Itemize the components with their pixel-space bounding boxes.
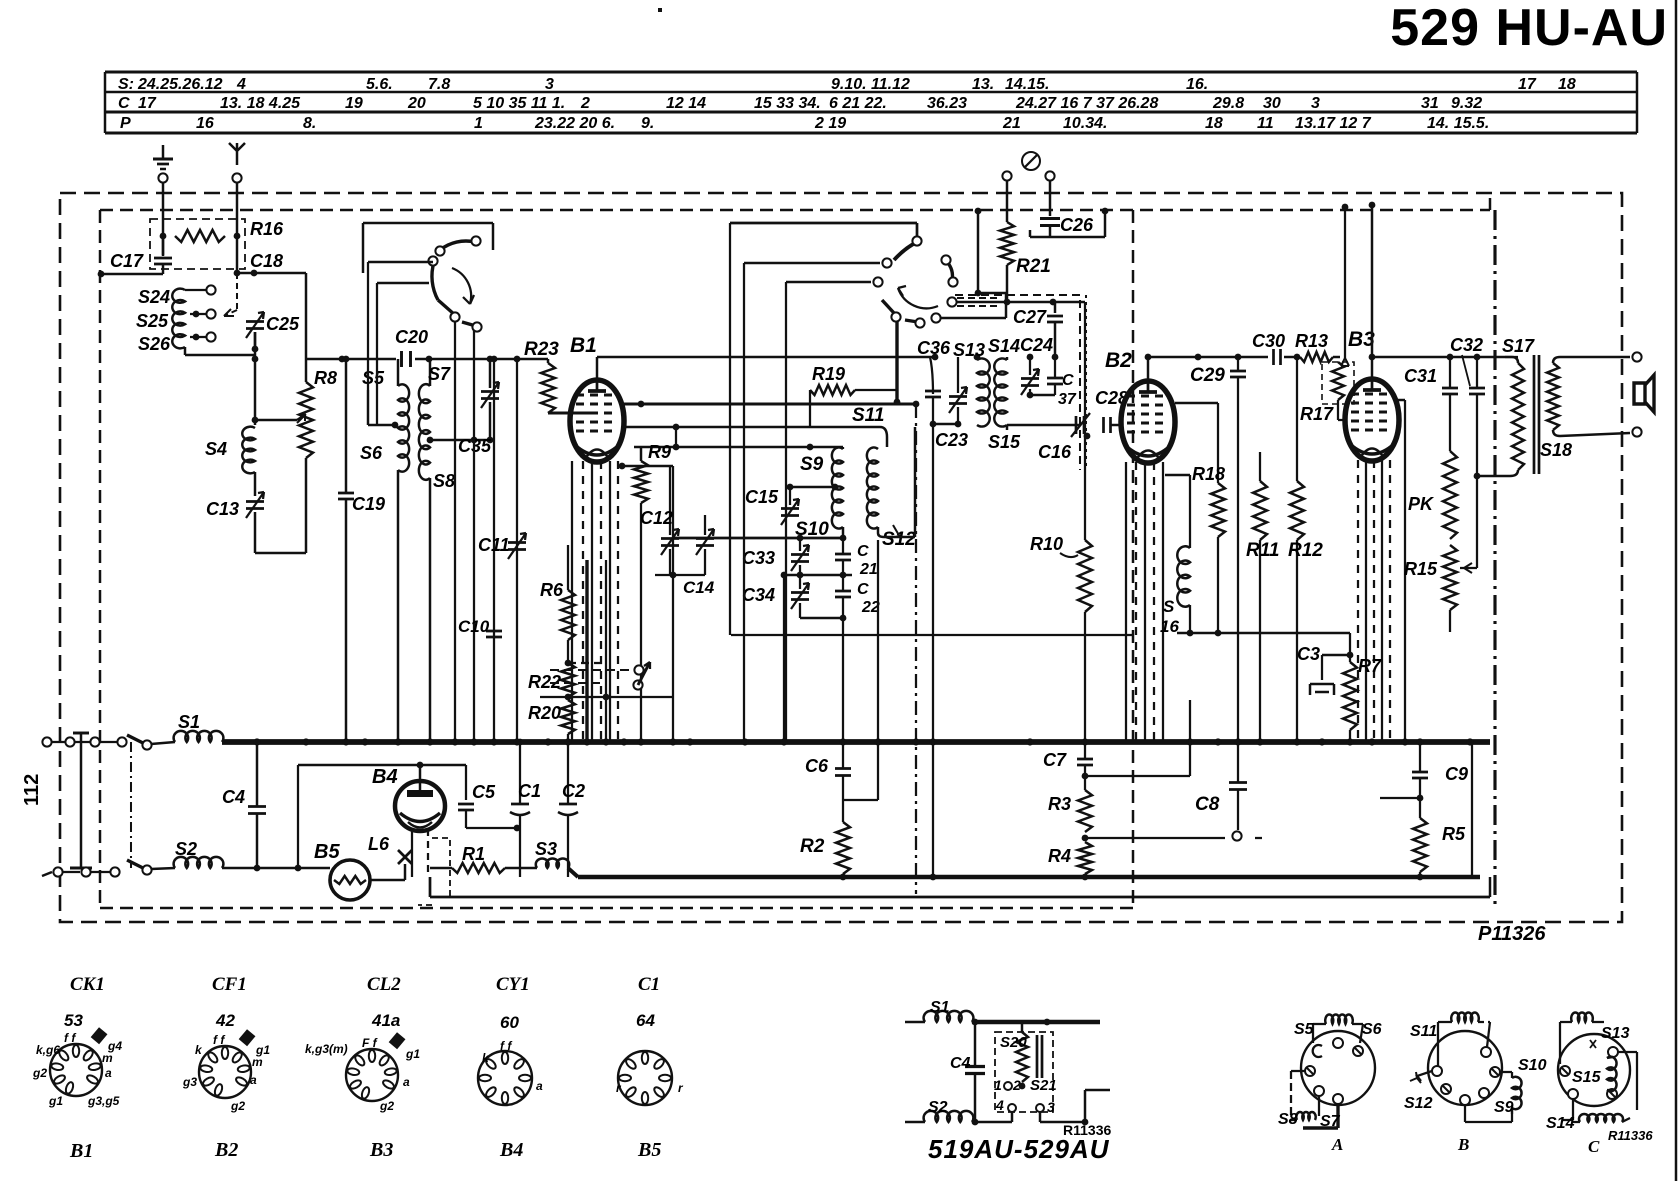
svg-text:R16: R16 — [250, 219, 284, 239]
label CY1 — [496, 974, 530, 995]
label L6 — [368, 834, 390, 854]
inset winding S21 — [1037, 1035, 1042, 1078]
svg-text:B5: B5 — [314, 841, 340, 863]
svg-text:14. 15.5.: 14. 15.5. — [1427, 115, 1489, 132]
svg-text:112: 112 — [21, 774, 43, 806]
label B5 socket — [637, 1139, 661, 1161]
label C31 — [1404, 366, 1437, 386]
svg-text:S13: S13 — [953, 340, 985, 360]
svg-text:C23: C23 — [935, 430, 968, 450]
svg-text:CY1: CY1 — [496, 974, 530, 995]
label B3 socket — [369, 1139, 393, 1161]
svg-text:S9: S9 — [1494, 1099, 1514, 1116]
transformer S17 — [1505, 357, 1524, 470]
svg-text:A: A — [1331, 1135, 1343, 1154]
svg-text:R17: R17 — [1300, 404, 1334, 424]
svg-text:R3: R3 — [1048, 794, 1071, 814]
svg-text:29.8: 29.8 — [1212, 95, 1244, 112]
wire x587 column — [585, 560, 588, 742]
svg-text:C5: C5 — [472, 782, 496, 802]
svg-text:C20: C20 — [395, 327, 428, 347]
svg-text:11: 11 — [1257, 115, 1274, 132]
wire B4 leads down — [412, 829, 428, 877]
capacitor C30 — [1274, 349, 1301, 365]
label R10 — [1030, 534, 1078, 557]
svg-text:S1: S1 — [178, 712, 200, 732]
inset coil S2 — [905, 1111, 973, 1122]
wire B3 grid right — [1395, 400, 1405, 742]
wire C12 C14 bottoms — [655, 572, 705, 579]
svg-text:B: B — [1457, 1135, 1469, 1154]
label S26 — [138, 334, 171, 354]
svg-text:529 HU-AU: 529 HU-AU — [1390, 0, 1668, 57]
coil S3 — [536, 858, 569, 868]
svg-text:S:: S: — [118, 76, 134, 93]
inset taps — [994, 1077, 1025, 1093]
label S2 — [175, 839, 197, 859]
wire x606 column — [605, 560, 607, 742]
inset label S1 — [930, 999, 950, 1016]
label R16 — [250, 219, 284, 239]
svg-text:S13: S13 — [1601, 1025, 1630, 1042]
wire y560 links — [567, 545, 569, 560]
wire C7 right — [1085, 700, 1190, 776]
label 64 — [636, 1011, 655, 1030]
HT bus — [222, 738, 1490, 745]
svg-text:S4: S4 — [205, 439, 227, 459]
svg-text:P: P — [120, 115, 131, 132]
inset thick wire top — [972, 1019, 1100, 1026]
wire C21 column to bus — [842, 618, 844, 742]
label C20 — [395, 327, 428, 347]
label R20 — [528, 703, 561, 723]
svg-text:S24: S24 — [138, 287, 170, 307]
label C23 — [935, 430, 968, 450]
wire y618 — [800, 615, 846, 622]
capacitor C24 variable — [1021, 354, 1039, 399]
inset resistor S20 — [1016, 1022, 1028, 1082]
svg-text:10.34.: 10.34. — [1063, 115, 1107, 132]
inset label R11336 — [1063, 1122, 1111, 1138]
switch S top — [127, 735, 175, 750]
label C29 — [1190, 365, 1225, 386]
coil S5 S6 — [398, 359, 409, 742]
svg-text:5.6.: 5.6. — [366, 76, 393, 93]
socket CK1 — [32, 1027, 122, 1108]
socket CF1 — [182, 1029, 270, 1113]
resistor R5 — [1413, 798, 1427, 877]
svg-text:R5: R5 — [1442, 824, 1466, 844]
inset label S21 — [1030, 1077, 1057, 1094]
svg-text:15 33 34.: 15 33 34. — [754, 95, 821, 112]
wire C13 to R8 bottom — [255, 552, 306, 554]
label S9 — [800, 454, 824, 475]
dashed box IF — [955, 295, 1086, 470]
svg-text:S11: S11 — [1410, 1023, 1437, 1040]
label C12 — [640, 508, 673, 528]
label S4 — [205, 439, 227, 459]
inner dashed border left — [99, 210, 101, 908]
svg-text:S17: S17 — [1502, 336, 1535, 356]
svg-text:C14: C14 — [683, 578, 715, 597]
svg-text:B4: B4 — [499, 1139, 523, 1161]
svg-text:C: C — [1588, 1137, 1600, 1156]
svg-text:13.17 12 7: 13.17 12 7 — [1295, 115, 1372, 132]
svg-text:C6: C6 — [805, 756, 829, 776]
svg-text:R4: R4 — [1048, 846, 1071, 866]
svg-text:37: 37 — [1058, 391, 1077, 408]
wire S17 bottom — [1474, 470, 1518, 479]
svg-text:k: k — [482, 1051, 490, 1065]
svg-text:R12: R12 — [1288, 540, 1323, 561]
dashes beside switch — [957, 298, 1000, 306]
coil S1 — [174, 731, 224, 742]
inset label C4 — [950, 1055, 971, 1072]
svg-text:5 10 35 11 1.: 5 10 35 11 1. — [473, 95, 565, 112]
svg-text:a: a — [536, 1079, 543, 1093]
svg-text:C17: C17 — [110, 251, 144, 271]
resistor R12 — [1290, 481, 1304, 742]
svg-text:a: a — [105, 1066, 112, 1080]
svg-text:PK: PK — [1408, 494, 1435, 514]
wire switch top — [363, 223, 493, 273]
svg-text:S5: S5 — [1294, 1021, 1315, 1038]
svg-text:S1: S1 — [930, 999, 950, 1016]
svg-text:S6: S6 — [1362, 1021, 1382, 1038]
svg-text:B5: B5 — [637, 1139, 661, 1161]
svg-text:C13: C13 — [206, 499, 239, 519]
connector A — [1291, 1014, 1363, 1128]
coil S2 — [174, 857, 224, 868]
capacitor C21 — [835, 538, 851, 575]
svg-text:8.: 8. — [303, 115, 316, 132]
wire switch right mid — [744, 263, 880, 742]
inset label S2 — [928, 1099, 948, 1116]
label C6 — [805, 756, 829, 776]
inset label S20 — [1000, 1034, 1027, 1051]
svg-text:C: C — [118, 95, 130, 112]
wire S18 bottom — [1553, 427, 1642, 436]
svg-text:m: m — [102, 1051, 113, 1065]
wire S2 to B5 — [222, 868, 334, 880]
svg-text:P11326: P11326 — [1478, 923, 1546, 945]
inset wires — [972, 1090, 1110, 1125]
resistor R7 — [1343, 633, 1357, 742]
dashed box B4 leads — [418, 838, 450, 905]
socket CL2 — [305, 1032, 420, 1113]
wire y404 — [624, 401, 919, 408]
wire y466 to column — [619, 463, 673, 742]
wire C9 left — [1380, 742, 1420, 798]
wire column x474 — [473, 326, 475, 742]
svg-text:C8: C8 — [1195, 794, 1220, 815]
wire R12 top — [1296, 357, 1298, 481]
svg-text:C31: C31 — [1404, 366, 1437, 386]
wire R17 wiper — [1341, 204, 1349, 366]
svg-text:C7: C7 — [1043, 750, 1067, 770]
speaker — [1634, 375, 1654, 412]
capacitor C7 — [1077, 742, 1093, 790]
label S11 — [852, 405, 884, 426]
label S14 — [988, 336, 1020, 356]
svg-text:S20: S20 — [1000, 1034, 1027, 1051]
wire y697 link — [540, 694, 673, 701]
svg-text:S14: S14 — [988, 336, 1020, 356]
label R19 — [812, 364, 845, 384]
svg-text:S12: S12 — [1404, 1095, 1433, 1112]
wire y765 — [295, 765, 466, 871]
capacitor C22 — [835, 575, 851, 618]
svg-text:R19: R19 — [812, 364, 845, 384]
wire B2 grid right — [1175, 403, 1218, 483]
LT bus — [578, 874, 1480, 881]
label C17 — [110, 251, 144, 271]
label S10 — [795, 519, 829, 540]
wire y357 right — [1148, 354, 1268, 361]
label CF1 — [212, 974, 247, 995]
svg-text:36.23: 36.23 — [927, 95, 967, 112]
svg-text:21: 21 — [1002, 115, 1021, 132]
label C10 — [458, 617, 490, 636]
svg-text:F f: F f — [362, 1036, 378, 1050]
svg-text:C2: C2 — [562, 781, 585, 801]
svg-text:3: 3 — [1311, 95, 1320, 112]
svg-text:g2: g2 — [32, 1066, 47, 1080]
svg-text:23.22 20 6.: 23.22 20 6. — [534, 115, 615, 132]
socket CY1 — [478, 1039, 543, 1105]
label B1 socket — [69, 1140, 93, 1162]
potentiometer R17 — [1332, 362, 1345, 420]
label B3 — [1348, 328, 1375, 351]
svg-text:f f: f f — [64, 1031, 76, 1045]
svg-text:17: 17 — [1518, 76, 1537, 93]
wire antenna down — [236, 183, 238, 236]
svg-text:R11: R11 — [1246, 540, 1279, 561]
resistor R1 — [430, 863, 537, 873]
svg-text:6 21 22.: 6 21 22. — [829, 95, 887, 112]
label C25 — [266, 314, 300, 334]
label P11326 — [1478, 923, 1546, 945]
title 529 HU-AU — [1390, 0, 1668, 57]
tube B2 leads — [1126, 462, 1163, 742]
svg-text:9.32: 9.32 — [1451, 95, 1482, 112]
wire coil node down — [252, 355, 259, 425]
label C2 — [562, 781, 585, 801]
connector C — [1560, 1012, 1637, 1122]
coil S14 — [994, 357, 1007, 427]
label S6 — [360, 443, 383, 463]
label C9 — [1445, 764, 1468, 784]
wire y447 R9 to S9 — [634, 427, 843, 450]
svg-text:S18: S18 — [1540, 440, 1572, 460]
wire S12 bottom — [878, 427, 915, 537]
label R8 — [314, 368, 337, 388]
table row P — [120, 115, 1489, 132]
label S8 — [433, 471, 455, 491]
capacitor C35 variable — [474, 359, 499, 443]
svg-text:53: 53 — [64, 1011, 83, 1030]
wire x916 switch — [894, 318, 901, 405]
svg-text:B1: B1 — [570, 334, 597, 357]
svg-text:R2: R2 — [800, 836, 825, 857]
label 41a — [371, 1011, 400, 1030]
capacitor C15 variable — [781, 484, 838, 525]
resistor R21 — [1000, 181, 1014, 305]
svg-text:31: 31 — [1421, 95, 1439, 112]
wire S10 bottom — [842, 527, 844, 538]
connector B circle — [1428, 1031, 1502, 1105]
wire y575 — [781, 572, 852, 579]
wire S17 top — [1505, 357, 1518, 363]
svg-text:C: C — [857, 581, 869, 598]
label C11 — [478, 535, 510, 555]
avc dash-dot line — [915, 404, 917, 894]
capacitor C2 — [558, 739, 578, 877]
capacitor C20 — [402, 351, 411, 367]
label R18 — [1192, 464, 1225, 484]
svg-text:519AU-529AU: 519AU-529AU — [928, 1134, 1110, 1164]
wire y663 link — [568, 662, 606, 664]
resistor R18 — [1211, 483, 1225, 633]
svg-text:9.10. 11.12: 9.10. 11.12 — [831, 76, 910, 93]
label CK1 — [70, 974, 105, 995]
label R2 — [800, 836, 825, 857]
wire S18 top — [1553, 352, 1642, 363]
svg-text:f f: f f — [213, 1033, 225, 1047]
resistor R22 — [561, 663, 575, 700]
label S12 — [882, 525, 916, 550]
label C28 — [1095, 388, 1128, 408]
svg-text:C27: C27 — [1013, 307, 1047, 327]
label C21 — [857, 543, 878, 578]
wire B2 anode — [1145, 354, 1152, 380]
label C18 — [250, 251, 283, 271]
wire y357 B1 to C36 — [597, 354, 938, 361]
svg-text:64: 64 — [636, 1011, 655, 1030]
inset capacitor C4 — [965, 1019, 985, 1126]
wire R8 tap — [255, 414, 306, 423]
svg-text:k,g6: k,g6 — [36, 1043, 60, 1057]
svg-text:C: C — [857, 543, 869, 560]
svg-text:R11336: R11336 — [1608, 1128, 1653, 1143]
svg-text:S11: S11 — [852, 405, 884, 426]
wire y635 long — [731, 634, 1133, 636]
svg-text:S2: S2 — [928, 1099, 948, 1116]
label R13 — [1295, 331, 1328, 351]
svg-text:60: 60 — [500, 1013, 519, 1032]
wire y633 — [1177, 630, 1350, 637]
wire B3 anode — [1369, 202, 1376, 379]
resistor R9 — [634, 447, 648, 742]
capacitor C4 — [248, 739, 266, 872]
label C8 — [1195, 794, 1220, 815]
svg-text:C34: C34 — [742, 585, 775, 605]
antenna symbol — [229, 143, 245, 165]
label S16 — [1160, 597, 1179, 636]
capacitor C17 — [154, 236, 172, 274]
wire to C20 column — [305, 273, 307, 359]
svg-text:S7: S7 — [428, 364, 451, 384]
capacitor C16 trimmer — [1071, 413, 1090, 437]
tube B3 leads — [1358, 460, 1390, 742]
svg-text:S8: S8 — [1278, 1111, 1298, 1128]
svg-text:C25: C25 — [266, 314, 300, 334]
svg-text:g1: g1 — [48, 1094, 63, 1108]
svg-text:13. 18 4.25: 13. 18 4.25 — [220, 95, 301, 112]
label C16 — [1038, 442, 1072, 462]
label R15 — [1404, 559, 1438, 579]
wire R15 wiper — [1460, 563, 1477, 573]
wire B1 anode — [596, 357, 598, 381]
capacitor C36 — [925, 357, 941, 742]
label C22 — [857, 581, 880, 616]
svg-text:C12: C12 — [640, 508, 673, 528]
switch gang dashdot — [130, 742, 132, 868]
capacitor C8 — [1229, 742, 1247, 830]
label S3 — [535, 839, 557, 859]
dashed box R16/C17 — [150, 219, 245, 269]
label PK — [1408, 494, 1435, 514]
svg-text:L6: L6 — [368, 834, 390, 854]
label C7 — [1043, 750, 1067, 770]
wire S16 top — [1165, 475, 1190, 548]
label B5 — [314, 841, 340, 863]
capacitor C6 — [835, 742, 851, 800]
svg-text:24.27 16 7 37 26.28: 24.27 16 7 37 26.28 — [1015, 95, 1158, 112]
svg-text:12 14: 12 14 — [666, 95, 706, 112]
svg-text:f f: f f — [500, 1039, 512, 1053]
label S15 — [988, 432, 1021, 452]
wire grid line y359 — [306, 356, 548, 363]
label R6 — [540, 580, 564, 600]
wire switch low — [377, 283, 429, 425]
svg-text:C15: C15 — [745, 487, 779, 507]
transformer core — [1534, 355, 1539, 474]
inset taps2 — [995, 1097, 1055, 1115]
svg-text:C36: C36 — [917, 338, 951, 358]
inner dashed border top — [100, 198, 1490, 210]
tube B1 — [570, 380, 624, 462]
svg-text:24.25.26.12: 24.25.26.12 — [137, 76, 223, 93]
capacitor C27 — [1047, 302, 1063, 360]
phono symbol — [1022, 152, 1040, 170]
svg-text:1: 1 — [474, 115, 483, 132]
connector C circle — [1558, 1034, 1630, 1106]
svg-text:S26: S26 — [138, 334, 171, 354]
svg-text:R18: R18 — [1192, 464, 1225, 484]
svg-text:S8: S8 — [433, 471, 455, 491]
capacitor C1 — [510, 739, 530, 877]
svg-text:B2: B2 — [214, 1139, 238, 1161]
tube B2 — [1121, 381, 1175, 463]
label C5 — [472, 782, 496, 802]
label C32 — [1450, 335, 1483, 386]
resistor R23 — [541, 359, 590, 413]
wire switch right low — [786, 282, 871, 742]
capacitor C31 — [1442, 357, 1458, 451]
tube B4 — [395, 762, 445, 831]
label B4 — [372, 766, 398, 788]
capacitor C25 variable — [246, 273, 264, 349]
resistor R4 — [1078, 842, 1092, 877]
label C34 — [742, 585, 775, 605]
label R23 — [524, 339, 559, 360]
wire column x517 C11 — [516, 359, 518, 742]
svg-text:C: C — [1062, 372, 1074, 389]
resistor R16 — [160, 230, 241, 242]
label 42 — [215, 1011, 235, 1030]
resistor R11 — [1253, 481, 1267, 742]
